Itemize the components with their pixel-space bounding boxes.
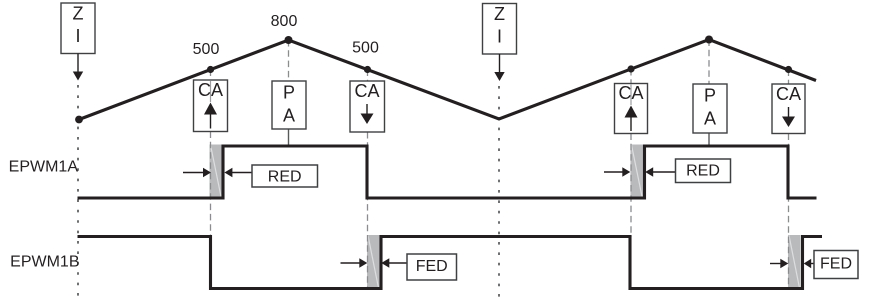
arrow FED1 left	[341, 258, 368, 268]
event box CA-up 1	[194, 80, 228, 132]
arrow below Z1	[73, 54, 83, 81]
callout box RED2	[676, 159, 731, 183]
guide CA-down 1	[367, 70, 369, 291]
arrow FED2 left	[770, 259, 788, 269]
svg-text:Z: Z	[494, 4, 505, 24]
svg-text:CA: CA	[776, 84, 801, 104]
svg-text:RED: RED	[686, 163, 720, 180]
wire EPWM1A waveform	[78, 146, 817, 198]
svg-text:RED: RED	[268, 168, 302, 185]
svg-text:FED: FED	[416, 258, 448, 275]
guide CA-up 1	[210, 70, 212, 238]
arrow FED1 right	[381, 258, 407, 268]
arrow below Z2	[494, 54, 504, 81]
node dot 800 peak 2	[705, 36, 713, 44]
guide CA-up 2	[630, 69, 632, 237]
svg-text:P: P	[704, 86, 716, 106]
callout box FED2	[814, 251, 858, 279]
event box Z1	[61, 3, 95, 54]
svg-text:500: 500	[352, 40, 379, 57]
svg-text:CA: CA	[354, 81, 379, 101]
svg-text:FED: FED	[820, 256, 852, 273]
arrow RED2 right	[645, 167, 675, 177]
guide PRD 1	[288, 40, 290, 81]
FED deadband bar 2	[788, 235, 801, 289]
svg-text:800: 800	[271, 13, 298, 30]
RED deadband bar 1	[210, 145, 223, 198]
svg-text:I: I	[497, 27, 502, 47]
triangle carrier wave	[79, 40, 816, 120]
svg-text:I: I	[75, 26, 80, 46]
arrow FED2 right	[804, 259, 814, 269]
callout box FED1	[407, 254, 457, 280]
svg-text:500: 500	[193, 41, 220, 58]
node dot 800 peak 1	[285, 36, 293, 44]
node dot zero 1	[75, 116, 83, 124]
svg-text:Z: Z	[73, 4, 84, 24]
RED deadband bar 2	[631, 145, 644, 198]
guide CA-down 2	[788, 70, 790, 291]
event box CA-up 2	[615, 83, 648, 134]
callout box RED1	[252, 165, 318, 187]
guide PRD 2	[708, 40, 710, 85]
FED deadband bar 1	[367, 235, 380, 289]
svg-text:EPWM1B: EPWM1B	[10, 253, 79, 270]
svg-text:A: A	[283, 106, 295, 126]
event box Z2	[483, 4, 517, 55]
svg-text:EPWM1A: EPWM1A	[9, 158, 79, 175]
node dot 500 falling 1	[364, 66, 371, 73]
svg-text:CA: CA	[198, 80, 223, 100]
node dot 500 rising 1	[207, 66, 214, 73]
wire EPWM1B waveform	[78, 237, 823, 289]
node Z2 dotted timeline	[498, 86, 500, 299]
event box PA 2	[693, 84, 727, 133]
node dot 500 rising 2	[627, 65, 634, 72]
svg-text:P: P	[283, 83, 295, 103]
node Z1 dotted timeline	[77, 85, 79, 299]
arrow RED1 right	[224, 168, 252, 178]
arrow RED2 left	[604, 167, 630, 177]
arrow RED1 left	[183, 168, 211, 178]
event box CA-down 2	[772, 84, 805, 134]
svg-text:A: A	[704, 109, 716, 129]
event box PA 1	[272, 81, 306, 129]
node dot 500 falling 2	[785, 66, 792, 73]
svg-text:CA: CA	[618, 83, 643, 103]
event box CA-down 1	[350, 81, 385, 132]
